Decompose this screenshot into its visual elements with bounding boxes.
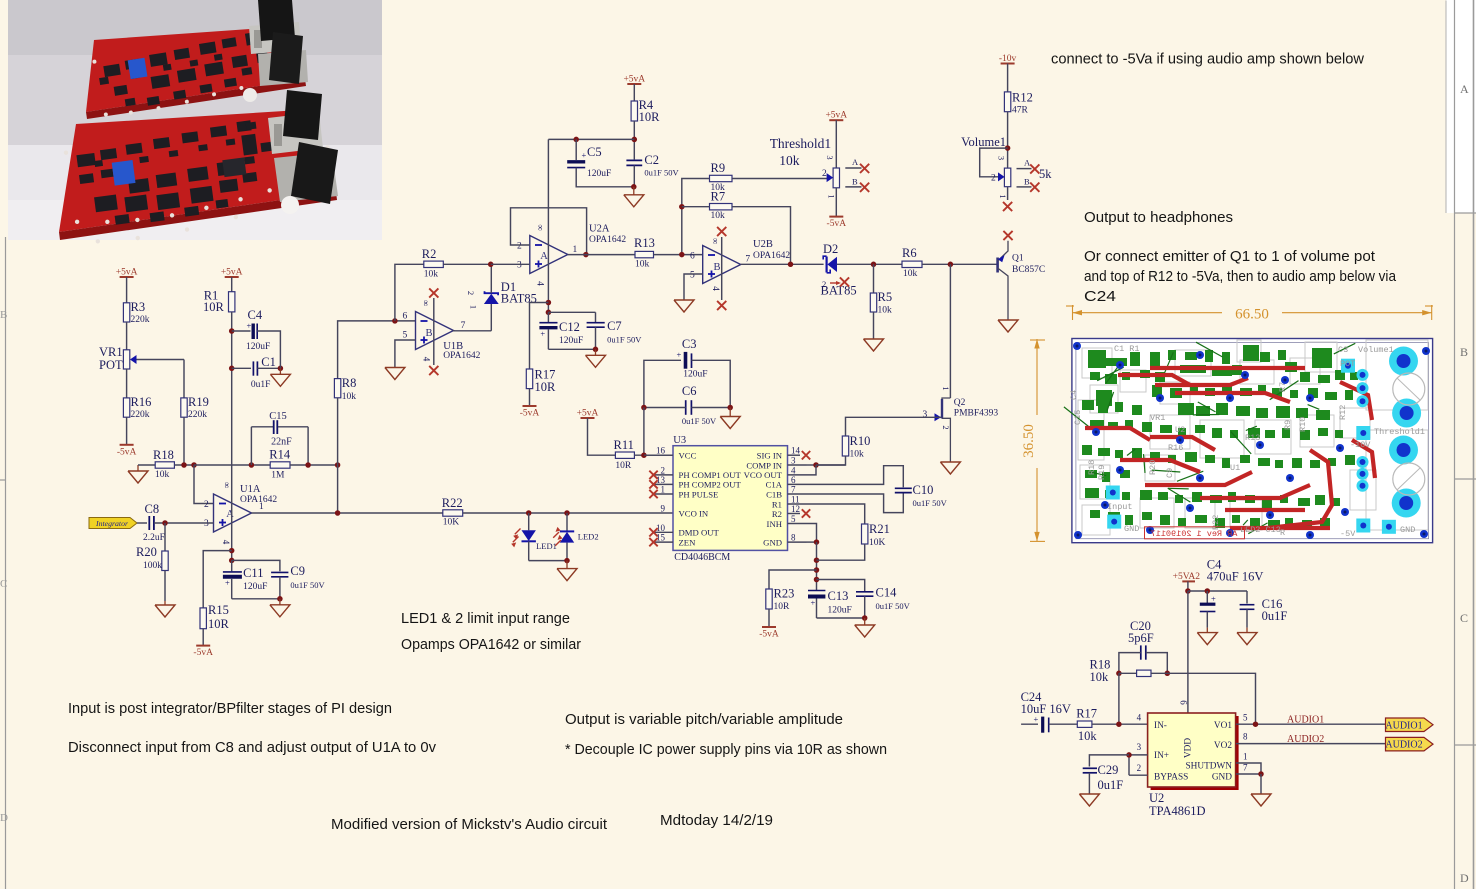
svg-text:10: 10 <box>656 523 666 533</box>
resistor R22 <box>442 496 463 528</box>
svg-text:R21: R21 <box>869 522 890 536</box>
resistor R17 <box>526 368 556 395</box>
node pin4 <box>1116 721 1122 727</box>
svg-text:0u1F 50V: 0u1F 50V <box>682 416 717 426</box>
svg-text:D2: D2 <box>823 242 838 256</box>
svg-text:+5vA: +5vA <box>825 111 847 121</box>
resistor R13 <box>634 236 655 270</box>
svg-text:+5vA: +5vA <box>116 268 138 278</box>
svg-text:R20: R20 <box>136 545 157 559</box>
svg-text:C15: C15 <box>269 411 287 422</box>
ground (R18) <box>128 465 148 483</box>
svg-text:AR Rev 1 20190117: AR Rev 1 20190117 <box>1151 529 1238 539</box>
svg-text:C4: C4 <box>248 308 263 322</box>
svg-text:POT: POT <box>99 358 123 372</box>
wire U1A power column <box>231 331 233 560</box>
transistor Q1 BC857C <box>998 241 1046 320</box>
wire C6 to VCC node <box>643 408 645 456</box>
node C7 gnd <box>593 347 599 353</box>
node U2B out/R7 <box>788 262 794 268</box>
svg-text:PH PULSE: PH PULSE <box>679 489 719 499</box>
power flag -5vA (Threshold1) <box>827 217 847 230</box>
svg-text:C1: C1 <box>261 355 276 369</box>
capacitor C4 (120uF) <box>232 308 281 361</box>
wire R4 to C2 node <box>633 121 635 159</box>
svg-text:+: + <box>540 329 545 339</box>
svg-text:10k: 10k <box>155 470 170 480</box>
svg-text:INH: INH <box>767 519 783 529</box>
svg-text:∞: ∞ <box>421 300 431 306</box>
wire volume to X <box>1007 187 1009 200</box>
U1B pin5 ground <box>385 340 416 380</box>
svg-text:B: B <box>425 328 432 339</box>
resistor R17 amp <box>1076 707 1147 744</box>
svg-text:GND: GND <box>1400 525 1415 535</box>
svg-text:-5V: -5V <box>1340 529 1356 539</box>
wire VR1 to R16 <box>126 369 128 398</box>
node C14 gnd <box>862 615 868 621</box>
svg-text:AUDIO1: AUDIO1 <box>1287 715 1324 726</box>
node U1B pin6 <box>392 318 398 324</box>
svg-text:OPA1642: OPA1642 <box>443 351 480 361</box>
svg-text:VCC: VCC <box>679 451 697 461</box>
svg-text:R9: R9 <box>1283 420 1293 430</box>
svg-text:10R: 10R <box>774 602 791 612</box>
svg-text:-10V: -10V <box>1350 440 1371 450</box>
svg-text:5p6F: 5p6F <box>1128 631 1154 645</box>
svg-text:R15: R15 <box>208 603 229 617</box>
port AUDIO2 <box>1385 737 1433 751</box>
svg-text:VDD: VDD <box>1184 738 1194 758</box>
capacitor C16 <box>1237 591 1287 645</box>
svg-text:R7: R7 <box>1278 382 1288 392</box>
svg-text:R19: R19 <box>188 395 209 409</box>
wire node to R20 <box>164 523 166 551</box>
svg-text:1: 1 <box>573 245 578 255</box>
svg-text:2: 2 <box>204 500 209 510</box>
ground (C7/C12) <box>586 349 606 367</box>
ground (C4/C1) <box>270 368 290 386</box>
svg-text:AUDIO2: AUDIO2 <box>1385 740 1422 751</box>
capacitor C5 (120uF) <box>567 139 634 186</box>
wire Q2 gate to R10 <box>846 417 942 436</box>
svg-text:R18: R18 <box>1087 460 1097 475</box>
wire to R23 <box>769 570 817 589</box>
wire +5VA2 to node <box>1187 581 1189 591</box>
resistor R8 <box>334 376 356 402</box>
resistor R6 <box>902 246 922 279</box>
svg-text:220k: 220k <box>188 410 207 420</box>
U2B pin5 ground <box>674 274 703 312</box>
svg-text:0u1F 50V: 0u1F 50V <box>607 335 642 345</box>
svg-text:10uF 16V: 10uF 16V <box>1021 702 1071 716</box>
node C1 row <box>229 366 235 372</box>
svg-text:Output to headphones: Output to headphones <box>1084 209 1233 226</box>
svg-text:R2: R2 <box>772 509 782 519</box>
capacitor C12 (120uF) <box>539 312 583 349</box>
capacitor C20 <box>1119 619 1167 673</box>
wire R13 to U2B <box>654 254 703 256</box>
svg-text:U2A: U2A <box>589 224 610 235</box>
resistor R11 <box>614 438 635 471</box>
resistor R12 <box>1004 91 1032 116</box>
svg-text:R23: R23 <box>774 587 795 601</box>
svg-text:10k: 10k <box>711 211 726 221</box>
svg-text:+: + <box>225 578 230 588</box>
svg-text:SHUTDWN: SHUTDWN <box>1186 762 1233 772</box>
svg-text:R14: R14 <box>269 448 291 462</box>
node C6 right <box>727 405 733 411</box>
svg-text:4: 4 <box>711 286 721 291</box>
svg-text:7: 7 <box>745 255 750 265</box>
wire -10v to R12 <box>1007 64 1009 92</box>
capacitor C9 <box>271 564 325 599</box>
svg-text:R19: R19 <box>1097 465 1107 480</box>
main row wire U1A to R22 <box>0 0 1 1</box>
text connect to -5Va <box>1051 51 1364 68</box>
svg-text:C13: C13 <box>828 589 849 603</box>
op-amp U1A <box>204 482 277 545</box>
svg-text:-5vA: -5vA <box>759 630 779 640</box>
transistor Q2 PMBF4393 <box>923 386 999 462</box>
diode D2 BAT85 <box>821 242 857 298</box>
wire R12 to volume node <box>1007 112 1009 168</box>
svg-text:A: A <box>1024 158 1031 168</box>
wire pin11 to R21 <box>807 504 865 524</box>
svg-text:Output is variable pitch/varia: Output is variable pitch/variable amplit… <box>565 711 843 728</box>
svg-text:220k: 220k <box>131 315 150 325</box>
capacitor C7 <box>587 312 643 349</box>
svg-text:120uF: 120uF <box>683 370 707 380</box>
resistor R5 <box>870 264 892 339</box>
wire C11/C9 top <box>232 560 280 571</box>
text output is variable <box>565 711 843 728</box>
svg-text:9: 9 <box>661 504 666 514</box>
svg-text:8: 8 <box>791 533 796 543</box>
resistor R4 <box>631 98 660 124</box>
wire Q2 drain <box>949 264 951 398</box>
svg-text:VCO IN: VCO IN <box>679 508 709 518</box>
power flag +5VA2 <box>1173 572 1201 582</box>
wire R9/R7 left column <box>682 179 710 255</box>
node U1A out column <box>335 510 341 516</box>
svg-text:10R: 10R <box>639 110 661 124</box>
node R5 <box>871 262 877 268</box>
svg-text:3: 3 <box>923 410 928 420</box>
svg-text:U1: U1 <box>1230 463 1240 473</box>
svg-text:2: 2 <box>1137 763 1142 773</box>
svg-text:R3: R3 <box>131 300 146 314</box>
svg-text:Input is post integrator/BPfil: Input is post integrator/BPfilter stages… <box>68 700 392 717</box>
svg-text:-5vA: -5vA <box>520 409 540 419</box>
wire pin3/pin2 tie <box>1129 755 1148 775</box>
no-connect X U1B pin4 <box>429 366 438 375</box>
wire D2 to R5 node <box>837 263 902 265</box>
svg-text:10k: 10k <box>424 270 439 280</box>
svg-text:2: 2 <box>822 169 827 179</box>
wire R23 to -5vA <box>768 609 770 627</box>
svg-text:0u1F: 0u1F <box>1262 609 1288 623</box>
U2A power column <box>547 139 549 312</box>
svg-text:6: 6 <box>1179 700 1189 705</box>
svg-text:3: 3 <box>997 156 1007 160</box>
ground (C9/C11) <box>270 599 290 617</box>
wire pin1/pin7 tie <box>1236 763 1261 774</box>
power flag +5vA (R3) <box>116 268 138 278</box>
text input is post <box>68 700 392 717</box>
svg-text:B: B <box>852 177 858 187</box>
wire +5vA to R11 <box>588 418 616 455</box>
node +5VA2 <box>1185 588 1191 594</box>
PCB layout image <box>1064 339 1433 543</box>
svg-text:C12: C12 <box>559 320 580 334</box>
node C4a top <box>1205 588 1211 594</box>
wire R7 to out column <box>732 207 791 265</box>
svg-text:15: 15 <box>656 533 666 543</box>
ground (C3/C6) <box>720 408 740 429</box>
svg-text:C10: C10 <box>913 483 934 497</box>
svg-text:5: 5 <box>1243 713 1248 723</box>
svg-text:R22: R22 <box>1211 515 1221 530</box>
svg-text:POT: POT <box>1340 359 1355 369</box>
svg-text:10K: 10K <box>869 538 886 548</box>
svg-text:4: 4 <box>422 357 432 362</box>
capacitor C10 loop top <box>807 466 904 488</box>
svg-text:GND: GND <box>1124 524 1139 534</box>
ground (Q1) <box>998 320 1018 332</box>
svg-text:+5vA: +5vA <box>623 75 645 85</box>
wire R21 bottom <box>817 544 865 560</box>
svg-text:OPA1642: OPA1642 <box>753 251 790 261</box>
ground (U2 amp) <box>1251 794 1271 806</box>
IC U3 CD4046BCM <box>649 435 810 563</box>
svg-text:120uF: 120uF <box>243 582 267 592</box>
svg-text:BAT85: BAT85 <box>501 292 537 306</box>
svg-text:C9: C9 <box>1165 468 1175 478</box>
wire C12/C7 top link <box>548 311 595 313</box>
resistor R18 amp <box>1090 658 1168 685</box>
svg-text:C6: C6 <box>682 384 697 398</box>
power flag +5vA (R1) <box>221 268 243 278</box>
svg-text:C11: C11 <box>243 566 263 580</box>
svg-text:C14: C14 <box>876 586 898 600</box>
wire pin6 row to R8 <box>338 321 416 379</box>
power flag +5vA (R4) <box>623 75 645 85</box>
capacitor C3 (120uF) <box>644 337 730 408</box>
U3 pin16 stub wire <box>644 454 673 456</box>
capacitor C8 <box>143 502 165 543</box>
svg-text:LED1 & 2 limit input range: LED1 & 2 limit input range <box>401 610 570 627</box>
svg-text:1: 1 <box>998 194 1008 198</box>
svg-text:R22: R22 <box>442 496 463 510</box>
resistor R23 <box>766 587 795 613</box>
svg-text:LED2 C13: LED2 C13 <box>1240 525 1281 535</box>
svg-text:A: A <box>226 509 234 520</box>
svg-text:connect to -5Va if using audio: connect to -5Va if using audio amp shown… <box>1051 51 1364 68</box>
svg-text:Disconnect input from C8 and a: Disconnect input from C8 and adjust outp… <box>68 739 436 756</box>
wire R10 to pin3 node <box>816 456 846 465</box>
power flag -5vA (R16) <box>117 445 137 458</box>
resistor R9 <box>710 161 733 193</box>
resistor R21 <box>862 522 890 548</box>
power flag +5vA (Threshold1) <box>825 111 847 121</box>
svg-text:+: + <box>582 150 587 160</box>
ground (C13/C14) <box>855 618 875 637</box>
svg-text:VO1: VO1 <box>1214 721 1232 731</box>
svg-text:C1 R1: C1 R1 <box>1114 344 1140 354</box>
svg-text:Q2: Q2 <box>954 398 966 408</box>
svg-text:A: A <box>540 251 548 262</box>
svg-text:C3: C3 <box>1338 345 1348 355</box>
svg-text:R18: R18 <box>153 448 174 462</box>
svg-text:66.50: 66.50 <box>1235 307 1269 323</box>
U2A feedback loop <box>511 208 587 255</box>
U2A out wire <box>568 254 635 256</box>
svg-text:1: 1 <box>468 305 478 309</box>
svg-text:22nF: 22nF <box>271 437 292 448</box>
text decouple <box>565 741 887 758</box>
svg-text:1M: 1M <box>271 471 285 481</box>
svg-text:R8: R8 <box>342 376 357 390</box>
wire R3 to VR1 <box>126 322 128 350</box>
node U2A pin3 <box>488 262 494 268</box>
svg-text:7: 7 <box>791 485 796 495</box>
node VO1 <box>1253 721 1259 727</box>
wire C8 to pin3 <box>154 522 214 524</box>
text LED1 limit <box>401 610 570 627</box>
svg-text:OPA1642: OPA1642 <box>589 235 626 245</box>
node LED1 <box>526 510 532 516</box>
power flag -10v (R12) <box>999 54 1017 64</box>
Volume1 wiper loop <box>980 148 1008 177</box>
capacitor C6 <box>644 384 730 426</box>
svg-text:GND: GND <box>1212 773 1232 783</box>
port AUDIO1 <box>1385 718 1433 732</box>
wire node to pin3 <box>491 263 530 265</box>
wire R15 to -5vA <box>202 629 204 646</box>
text output to headphones <box>1084 209 1233 226</box>
svg-text:1: 1 <box>1243 752 1248 762</box>
wire to gnd (C1) <box>279 361 281 368</box>
wire GND column <box>816 542 818 590</box>
svg-text:0u1F 50V: 0u1F 50V <box>876 601 911 611</box>
node C9 ground <box>277 596 283 602</box>
svg-text:R10: R10 <box>850 434 871 448</box>
svg-text:16: 16 <box>656 446 666 456</box>
wire R8 column down <box>337 465 339 513</box>
node R23 row <box>814 567 820 573</box>
wire C4a row <box>1188 590 1247 592</box>
svg-text:ZEN: ZEN <box>679 537 697 547</box>
threshold pin B <box>845 177 869 192</box>
wire R11 to VCC <box>634 454 673 456</box>
svg-text:IN-: IN- <box>1154 721 1167 731</box>
no-connect X U2B pin4 <box>717 301 726 310</box>
svg-text:R11: R11 <box>614 438 634 452</box>
svg-text:PH COMP2 OUT: PH COMP2 OUT <box>679 480 742 490</box>
svg-text:120uF: 120uF <box>828 606 852 616</box>
wire pin3/4 join <box>807 465 817 475</box>
wire R6 to Q1 <box>922 263 998 265</box>
svg-text:R16: R16 <box>131 395 152 409</box>
svg-text:+: + <box>1211 594 1216 604</box>
svg-text:3: 3 <box>204 519 209 529</box>
node U2A out <box>583 252 589 258</box>
wire VO1 out <box>1236 723 1386 725</box>
svg-text:10R: 10R <box>203 300 225 314</box>
svg-text:2: 2 <box>466 291 476 295</box>
svg-text:10k: 10k <box>903 269 918 279</box>
node R13/pin6 <box>679 252 685 258</box>
node C8/R20 <box>162 520 168 526</box>
svg-text:3: 3 <box>791 456 796 466</box>
svg-text:3: 3 <box>1137 742 1142 752</box>
node pin2 branch <box>191 462 197 468</box>
net label AUDIO2 <box>1287 734 1324 745</box>
wire R17 to -5vA <box>529 389 531 406</box>
svg-text:7: 7 <box>1243 763 1248 773</box>
resistor R14 <box>269 448 291 481</box>
svg-text:7: 7 <box>461 321 466 331</box>
wire R2 branch <box>395 264 424 321</box>
svg-text:6: 6 <box>690 252 695 262</box>
svg-text:R16: R16 <box>1168 443 1183 453</box>
svg-text:6: 6 <box>403 312 408 322</box>
svg-text:C9: C9 <box>290 564 305 578</box>
svg-text:C2: C2 <box>644 153 659 167</box>
no-connect X Q1 emitter <box>1003 231 1012 240</box>
svg-text:0u1F 50V: 0u1F 50V <box>644 168 679 178</box>
node R8 column <box>335 462 341 468</box>
svg-text:R7: R7 <box>711 190 726 204</box>
svg-text:∞: ∞ <box>536 224 546 230</box>
svg-text:U1A: U1A <box>240 484 261 495</box>
wire to R15 column <box>203 551 232 608</box>
svg-text:VR1: VR1 <box>1150 413 1165 423</box>
svg-text:C3: C3 <box>682 337 697 351</box>
capacitor C1 <box>232 355 281 390</box>
potentiometer Threshold1 <box>770 136 840 198</box>
svg-text:A: A <box>1460 82 1469 96</box>
svg-text:13: 13 <box>656 475 666 485</box>
wire tag to C8 <box>137 522 147 524</box>
power flag -5vA (R23) <box>759 627 779 640</box>
node LED gnd <box>564 558 570 564</box>
svg-text:AUDIO2: AUDIO2 <box>1287 734 1324 745</box>
no-connect X Volume1 bottom <box>1003 202 1012 211</box>
svg-text:11: 11 <box>791 495 800 505</box>
svg-text:2: 2 <box>517 242 522 252</box>
svg-text:and top of R12 to -5Va, then t: and top of R12 to -5Va, then to audio am… <box>1084 268 1397 285</box>
svg-text:6: 6 <box>791 475 796 485</box>
svg-text:5k: 5k <box>1039 167 1052 181</box>
svg-text:R6: R6 <box>902 246 917 260</box>
text C24 <box>1084 288 1116 305</box>
IC U2 TPA4861D <box>1137 700 1248 818</box>
svg-text:5: 5 <box>690 271 695 281</box>
svg-text:2.2uF: 2.2uF <box>143 533 165 543</box>
svg-text:10R: 10R <box>535 380 557 394</box>
svg-text:+: + <box>677 350 682 360</box>
svg-text:BYPASS: BYPASS <box>1154 773 1188 783</box>
svg-text:3: 3 <box>517 261 522 271</box>
op-amp U2A <box>517 224 626 287</box>
wire LED bottoms <box>529 560 567 562</box>
svg-text:1: 1 <box>661 485 666 495</box>
net label AUDIO1 <box>1287 715 1324 726</box>
svg-text:36.50: 36.50 <box>1021 424 1037 458</box>
svg-text:+: + <box>1034 714 1039 724</box>
